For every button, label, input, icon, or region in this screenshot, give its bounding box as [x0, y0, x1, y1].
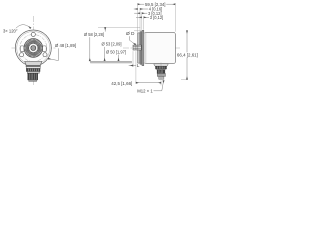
- dia50 extension to washer: [118, 55, 120, 61]
- svg-text:M12 × 1: M12 × 1: [137, 89, 153, 95]
- leader for 3x120: [16, 25, 31, 29]
- connector mid band: [27, 72, 39, 74]
- side connector tip: [157, 74, 165, 77]
- housing inner rim circle: [17, 31, 50, 64]
- screw hole bottom-right: [43, 53, 47, 57]
- flange top reference hairline: [98, 26, 140, 28]
- svg-text:Ø 53 [2,09]: Ø 53 [2,09]: [102, 42, 122, 48]
- hairline above flange: [134, 30, 142, 32]
- svg-text:Ø D: Ø D: [126, 31, 135, 37]
- connector knurl: [26, 69, 40, 72]
- main body: [144, 32, 176, 63]
- leader for dia 48: [48, 48, 58, 60]
- svg-text:L: L: [137, 63, 140, 69]
- bolt circle (dash-dot): [20, 35, 47, 62]
- spring washer plate (edge view): [91, 61, 132, 63]
- flange ring dia58: [142, 30, 144, 65]
- clamp white ring: [29, 43, 38, 52]
- screw hole bottom-left: [20, 53, 24, 57]
- side connector centerline: [160, 63, 162, 86]
- horizontal centerline: [12, 47, 56, 49]
- connector collar: [26, 65, 40, 66]
- dia58 up arrow: [104, 28, 106, 32]
- torque stop slot left: [20, 46, 24, 52]
- dim 59,5 total: [138, 3, 176, 5]
- pilot step dia50: [138, 33, 140, 63]
- ext line at connector stub bottom: [181, 79, 188, 81]
- vertical centerline: [32, 16, 34, 85]
- svg-text:Ø 50 [1,97]: Ø 50 [1,97]: [106, 49, 126, 55]
- connector band: [26, 67, 40, 69]
- connector thread: [28, 73, 38, 80]
- ext line shaft tip: [132, 51, 134, 67]
- side connector stub: [159, 76, 164, 79]
- svg-text:66,4 [2,61]: 66,4 [2,61]: [177, 53, 198, 59]
- shaft with collet: [133, 45, 141, 50]
- leader dia D: [130, 36, 136, 44]
- connector tip: [29, 80, 37, 82]
- leader M12: [154, 81, 164, 91]
- side connector mid band: [157, 68, 166, 71]
- svg-text:3× 120°: 3× 120°: [3, 28, 18, 34]
- bore with hatch: [31, 46, 36, 51]
- side centerline: [123, 47, 180, 49]
- side connector shoulder: [154, 64, 169, 66]
- body left shade: [144, 33, 146, 64]
- screw hole top: [31, 32, 35, 36]
- step dia53: [140, 32, 142, 65]
- housing outer circle: [15, 30, 51, 66]
- side connector thread: [157, 70, 165, 74]
- dia53 extension to washer: [104, 47, 106, 61]
- connector shoulder: [25, 61, 42, 65]
- knurled clamping ring: [24, 39, 43, 58]
- extension lines for top dims: [134, 3, 175, 32]
- svg-text:Ø 58 [2,28]: Ø 58 [2,28]: [84, 32, 104, 38]
- dim L: [129, 65, 133, 67]
- svg-text:3 [0,12]: 3 [0,12]: [150, 15, 164, 21]
- torque stop slot right: [43, 46, 47, 52]
- side connector knurl: [156, 66, 167, 69]
- ext line collet face bottom: [135, 51, 137, 83]
- dia58 extension to washer: [89, 37, 91, 61]
- svg-text:42,5 [1,66]: 42,5 [1,66]: [111, 81, 132, 87]
